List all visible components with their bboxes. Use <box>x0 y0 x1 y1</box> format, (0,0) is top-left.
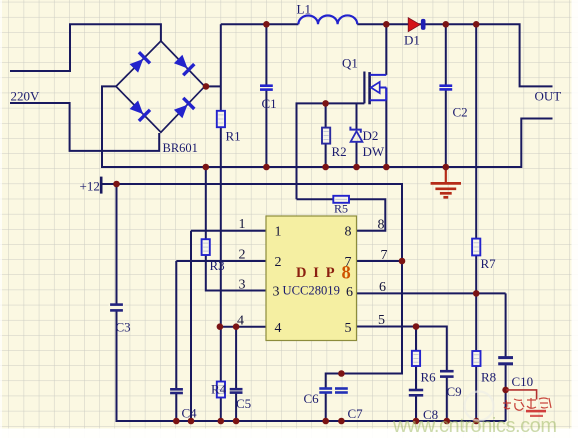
svg-text:C7: C7 <box>348 406 364 421</box>
svg-text:7: 7 <box>345 255 352 270</box>
svg-text:L1: L1 <box>297 2 311 17</box>
svg-text:UCC28019: UCC28019 <box>283 284 340 298</box>
svg-text:7: 7 <box>381 248 388 263</box>
svg-text:8: 8 <box>378 218 385 233</box>
svg-text:R3: R3 <box>210 258 225 273</box>
svg-text:R5: R5 <box>334 202 348 216</box>
svg-text:R6: R6 <box>421 370 437 385</box>
svg-text:+12: +12 <box>80 179 100 194</box>
svg-text:8: 8 <box>345 225 352 240</box>
svg-text:R4: R4 <box>211 382 227 397</box>
svg-text:C3: C3 <box>116 320 131 335</box>
svg-text:DW: DW <box>363 144 385 159</box>
svg-text:R8: R8 <box>481 370 496 385</box>
svg-text:D I P: D I P <box>296 265 336 281</box>
svg-text:2: 2 <box>275 255 282 270</box>
svg-text:C10: C10 <box>512 374 534 389</box>
svg-text:www.cntronics.com: www.cntronics.com <box>392 415 557 437</box>
svg-text:OUT: OUT <box>535 89 562 104</box>
svg-text:220V: 220V <box>11 89 41 104</box>
svg-text:BR601: BR601 <box>163 141 198 155</box>
svg-text:3: 3 <box>273 285 280 300</box>
svg-text:R1: R1 <box>226 129 241 144</box>
svg-text:6: 6 <box>379 280 386 295</box>
svg-text:1: 1 <box>239 217 246 232</box>
svg-text:C2: C2 <box>453 105 468 120</box>
svg-text:Q1: Q1 <box>342 56 358 71</box>
svg-text:D2: D2 <box>363 128 379 143</box>
svg-text:C4: C4 <box>182 406 198 421</box>
svg-text:5: 5 <box>345 321 352 336</box>
svg-text:C5: C5 <box>236 396 251 411</box>
svg-text:6: 6 <box>346 285 353 300</box>
svg-text:3: 3 <box>239 277 246 292</box>
svg-text:C9: C9 <box>447 384 462 399</box>
svg-text:4: 4 <box>237 314 244 329</box>
svg-text:R7: R7 <box>481 256 497 271</box>
svg-text:1: 1 <box>275 225 282 240</box>
svg-text:R2: R2 <box>332 144 347 159</box>
svg-text:D1: D1 <box>404 33 420 48</box>
svg-text:C6: C6 <box>304 391 320 406</box>
svg-text:4: 4 <box>275 321 282 336</box>
svg-text:5: 5 <box>378 313 385 328</box>
svg-text:2: 2 <box>239 248 246 263</box>
svg-text:C1: C1 <box>262 96 277 111</box>
